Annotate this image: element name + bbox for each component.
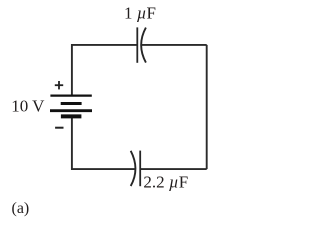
svg-text:(a): (a) [12,200,30,217]
capacitor C2 (2.2 µF) straight plate [139,151,141,187]
wire: bottom-right corner to C2 straight plate [141,168,207,170]
capacitor C1 (1 µF) straight plate [136,27,138,62]
capacitor C2 (2.2 µF) curved plate [131,151,136,186]
minus sign of battery [55,127,63,129]
battery V1 plate 1 (long, positive) [50,94,91,96]
wire: right side vertical [206,45,208,169]
svg-text:10 V: 10 V [11,96,45,115]
wire: C1 curved plate to top-right corner [142,44,207,46]
plus sign of battery [55,81,63,89]
capacitor C1 (1 µF) curved plate [141,28,146,63]
svg-text:1 µF: 1 µF [124,4,156,23]
battery V1 plate 4 (short, thick, negative) [61,114,82,118]
battery V1 plate 3 (long) [50,109,92,112]
svg-text:2.2 µF: 2.2 µF [143,172,188,191]
wire: bottom-left from battery - terminal to C2 curved plate [72,118,135,170]
wire: battery + terminal up and across to C1 left plate [72,45,137,96]
battery V1 plate 2 (short, thick) [61,102,82,105]
